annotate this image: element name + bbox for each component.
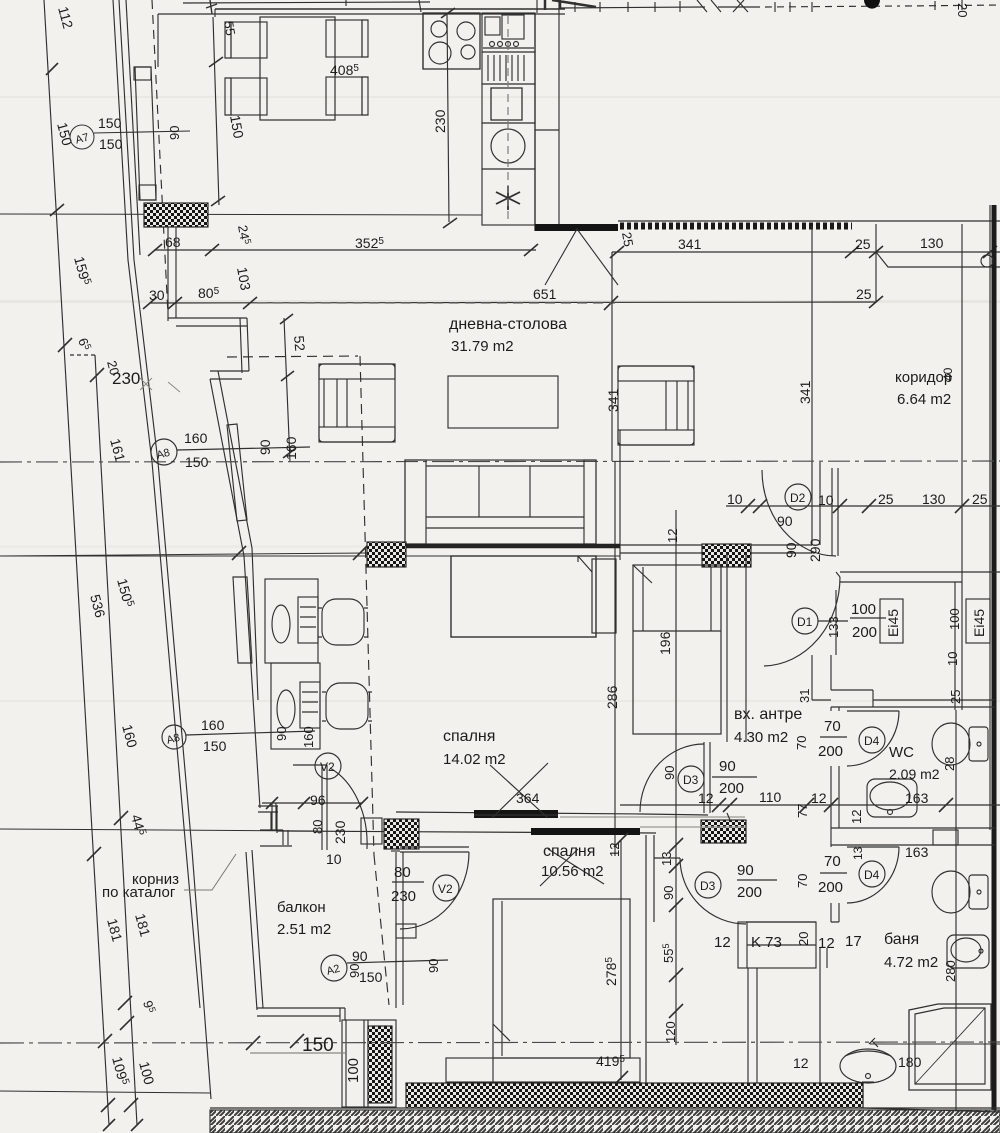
svg-text:4.30 m2: 4.30 m2: [734, 729, 788, 746]
living/bedroom wall y553: [620, 552, 812, 554]
svg-text:341: 341: [605, 388, 621, 412]
svg-text:200: 200: [719, 780, 744, 797]
svg-text:20: 20: [955, 3, 970, 17]
svg-text:90: 90: [662, 766, 677, 780]
label 20 top right: [955, 3, 970, 17]
bedroom south wall upper line: [396, 812, 708, 815]
door D1 arc: [764, 577, 840, 666]
wall stub y765: [293, 764, 326, 766]
balcony bottom wall: [257, 1008, 345, 1016]
svg-text:D3: D3: [700, 879, 716, 893]
wash basin bath right: [947, 935, 989, 968]
door D1 leaf: [836, 572, 840, 577]
counter left edge: [422, 13, 424, 69]
desk unit 2: [271, 663, 320, 749]
toilet wc: [932, 723, 988, 765]
chain2 tick y375: [90, 368, 104, 382]
shower cabin: [869, 1004, 1000, 1090]
svg-text:160: 160: [184, 430, 208, 446]
A8-2 leader: [186, 731, 315, 735]
corridor axis x812: [811, 226, 813, 462]
svg-text:230: 230: [112, 369, 140, 388]
bedroom south wall lower line: [277, 831, 656, 833]
svg-text:6.64 m2: 6.64 m2: [897, 391, 951, 408]
window end block top: [134, 67, 151, 80]
door D2 arc: [762, 470, 836, 556]
svg-text:30: 30: [149, 287, 165, 303]
svg-text:12: 12: [698, 790, 714, 806]
left horizontal line y1091: [0, 1091, 211, 1093]
svg-text:10: 10: [818, 492, 834, 508]
hatch wall H1: [144, 203, 208, 227]
coffee table: [448, 376, 558, 428]
bedroom west wall slant: [244, 548, 260, 808]
dim row y506: [726, 505, 1000, 507]
svg-text:150: 150: [99, 136, 123, 152]
svg-text:90: 90: [167, 126, 182, 140]
tick: [211, 196, 225, 206]
chain1 tick y1041: [98, 1034, 112, 1048]
chain2 tick y1022: [120, 1016, 134, 1030]
tick: [741, 499, 755, 513]
tick: [669, 838, 683, 852]
tick: [614, 1071, 628, 1085]
axis circle A7: [70, 125, 94, 149]
bath west wall: [646, 835, 654, 1086]
chain2 tick y1000: [118, 996, 132, 1010]
window end block bottom: [139, 185, 156, 200]
wall step y130: [535, 129, 559, 131]
door V2 balcony arc: [400, 852, 469, 929]
svg-text:10: 10: [326, 851, 342, 867]
korniz leader polyline: [184, 854, 236, 890]
svg-text:55: 55: [221, 20, 238, 37]
svg-text:D1: D1: [797, 615, 813, 629]
svg-text:20: 20: [796, 932, 811, 946]
bath bottom walls: [862, 1083, 864, 1108]
tick on axis2: [290, 1034, 304, 1048]
window strip mid (tilted): [227, 424, 247, 521]
door D2 leaf: [832, 468, 838, 556]
svg-text:2.51 m2: 2.51 m2: [277, 921, 331, 938]
living west wall step verticals: [168, 227, 176, 321]
svg-text:10.56 m2: 10.56 m2: [541, 863, 604, 880]
step horizontal double: [168, 318, 247, 326]
dining chair top-left: [225, 22, 267, 58]
svg-text:D4: D4: [864, 734, 880, 748]
tick: [669, 898, 683, 912]
svg-text:28: 28: [942, 757, 957, 771]
checker in wall block: [368, 1026, 392, 1103]
right edge wall dark: [992, 205, 997, 1120]
tick: [298, 797, 310, 809]
hatch H2: [367, 542, 406, 567]
svg-text:дневна-столова: дневна-столова: [449, 316, 567, 333]
exterior slanted facade line f2: [119, 0, 211, 1099]
dashed line balcony: [374, 855, 389, 1005]
entrance north wall: [840, 572, 1000, 582]
svg-text:WC: WC: [889, 744, 914, 761]
dining chair top-right: [326, 20, 368, 57]
diagonal hatch strip bottom: [210, 1110, 1000, 1133]
window bar black 2: [531, 828, 640, 835]
tick: [824, 798, 838, 812]
fraction 90/200 D3b: [737, 879, 777, 881]
dining west wall top: [158, 9, 215, 67]
svg-text:150: 150: [359, 969, 383, 985]
svg-text:12: 12: [607, 843, 622, 857]
svg-text:2.09 m2: 2.09 m2: [889, 766, 940, 782]
svg-text:110: 110: [759, 789, 782, 805]
wc/bath divider wall: [831, 828, 995, 845]
svg-text:90: 90: [274, 727, 289, 741]
left dimension chain 2 (inner): [95, 355, 137, 1125]
Ei45 box 1: [880, 599, 903, 643]
top wall line outer: [215, 8, 565, 10]
tick: [148, 244, 162, 256]
exterior slanted facade line f1: [113, 0, 200, 1008]
hatch H4: [701, 820, 746, 843]
door jamb block: [396, 924, 416, 938]
dim row y302: [150, 302, 876, 303]
svg-text:90: 90: [661, 886, 676, 900]
dim vertical x288 (52): [284, 318, 290, 462]
door D3 antre leaf: [704, 742, 710, 813]
svg-text:180: 180: [898, 1054, 922, 1070]
D3 circle a: [678, 766, 704, 792]
tick: [168, 297, 182, 309]
svg-text:290: 290: [807, 538, 823, 562]
entrance east wall: [955, 582, 962, 710]
wc duct wall: [955, 710, 957, 1110]
tick: [209, 57, 223, 67]
svg-text:120: 120: [663, 1021, 678, 1043]
wash basin bath bottom: [840, 1049, 896, 1083]
svg-text:12: 12: [811, 790, 827, 806]
dashed living span y302: [257, 302, 615, 304]
tick on wall left: [232, 546, 246, 560]
chain1 tick y1105: [101, 1098, 115, 1112]
door V2 bedroom leaf: [322, 765, 327, 850]
tick: [712, 798, 726, 812]
tick: [669, 859, 683, 873]
svg-text:25: 25: [855, 236, 871, 252]
tick: [939, 798, 953, 812]
svg-text:96: 96: [310, 792, 326, 808]
tick x360: [353, 546, 367, 560]
svg-text:150: 150: [185, 454, 209, 470]
svg-text:230: 230: [391, 888, 416, 905]
svg-text:Ei45: Ei45: [885, 609, 901, 637]
svg-text:160: 160: [301, 726, 316, 748]
svg-text:90: 90: [426, 959, 441, 973]
left horizontal line y829: [0, 829, 318, 831]
svg-text:70: 70: [824, 853, 841, 870]
toilet bath: [932, 871, 988, 913]
svg-text:10: 10: [945, 652, 960, 666]
bed2 vertical: [633, 565, 721, 734]
corridor west wall: [812, 462, 820, 545]
svg-text:68: 68: [165, 234, 181, 250]
chain2 end arrow: [131, 1119, 143, 1131]
gray wall lines: [560, 817, 745, 827]
washing machine: [482, 123, 535, 169]
dining chair bottom-right: [326, 77, 368, 115]
thin line under 364: [474, 814, 558, 816]
svg-text:25: 25: [878, 491, 894, 507]
door D3 bath leaf: [654, 857, 680, 859]
Ei45 box 2: [966, 599, 990, 643]
left dimension chain 1 (outer): [44, 0, 109, 1125]
fraction 70/200 wc: [820, 736, 847, 738]
bed3 footboard: [446, 1058, 640, 1082]
dim vert x676: [675, 510, 677, 1045]
bath west wall lower: [748, 968, 757, 1086]
dishwasher hatched: [482, 52, 535, 84]
tick: [614, 833, 628, 847]
svg-text:25: 25: [972, 491, 988, 507]
antre south stub: [812, 699, 831, 701]
svg-text:150: 150: [203, 738, 227, 754]
living/bedroom wall y545 thin: [620, 544, 812, 546]
leader X 364: [490, 763, 548, 818]
fraction 100/200: [850, 617, 886, 619]
svg-text:12: 12: [849, 810, 864, 824]
tick: [669, 968, 683, 982]
door D3 antre arc: [640, 744, 704, 812]
svg-text:D2: D2: [790, 491, 806, 505]
tick: [143, 297, 157, 309]
dim row y252 right: [612, 251, 1000, 253]
svg-text:V2: V2: [320, 760, 335, 774]
svg-text:12: 12: [714, 934, 731, 951]
tick: [610, 246, 624, 258]
svg-text:100: 100: [947, 608, 962, 630]
top survey strip: [183, 0, 1000, 14]
tick: [845, 246, 859, 258]
window box left of hatch: [361, 818, 382, 844]
svg-text:90: 90: [719, 758, 736, 775]
tick: [869, 246, 883, 258]
living/bedroom wall y545 thick: [368, 544, 620, 549]
tick: [833, 499, 847, 513]
wall stub x825: [820, 948, 827, 1086]
dash-dot axis y461 full width: [0, 461, 1000, 462]
A2 axis circle: [321, 955, 347, 981]
svg-text:163: 163: [905, 790, 929, 806]
dim line 96: [262, 802, 362, 804]
window strip west bedroom: [233, 577, 252, 663]
checker bottom strip: [406, 1083, 863, 1108]
svg-text:40: 40: [941, 367, 955, 381]
svg-text:D4: D4: [864, 868, 880, 882]
kitchen centerline dashed: [507, 16, 509, 224]
svg-text:160: 160: [201, 717, 225, 733]
dim vert x836 (133): [835, 590, 837, 655]
svg-text:100: 100: [851, 601, 876, 618]
balcony step down: [340, 1008, 345, 1022]
dining chair bottom-left: [225, 78, 267, 115]
door D4 bath leaf: [847, 846, 899, 848]
svg-text:90: 90: [257, 439, 273, 455]
svg-text:31.79 m2: 31.79 m2: [451, 338, 514, 355]
A2 leader: [347, 960, 448, 963]
dim vert x615 lower: [614, 560, 616, 856]
svg-text:V2: V2: [438, 882, 453, 896]
dim row y250: [154, 249, 536, 251]
tick top: [441, 8, 455, 18]
A8 leader: [177, 447, 310, 450]
wash basin wc: [867, 779, 917, 817]
entrance/wc step walls: [812, 655, 995, 707]
svg-text:70: 70: [824, 718, 841, 735]
kitchen right wall: [534, 13, 536, 231]
D1 circle: [792, 608, 818, 634]
stool 2: [322, 683, 372, 729]
door D3 bath arc: [680, 858, 746, 924]
dim line vertical x215: [213, 17, 219, 205]
svg-text:286: 286: [604, 685, 620, 709]
svg-text:341: 341: [678, 236, 702, 252]
bed1 horizontal: [451, 556, 616, 637]
A7 leader line: [94, 131, 190, 133]
thick wall bar below kitchen: [535, 224, 618, 231]
wall edge line left: [0, 555, 620, 557]
svg-text:25: 25: [948, 690, 963, 704]
window bar black 1: [474, 810, 558, 818]
corridor top wall thin edge: [618, 220, 1000, 222]
svg-text:200: 200: [852, 624, 877, 641]
dining table: [260, 17, 335, 120]
balcony east wall: [396, 852, 403, 1008]
dim vertical x612 (341): [612, 252, 620, 560]
svg-text:364: 364: [516, 790, 540, 806]
corridor top dotted wall: [620, 223, 852, 230]
V2 circle b: [433, 875, 459, 901]
svg-text:по каталог: по каталог: [102, 884, 176, 901]
tick: [983, 246, 997, 258]
svg-text:70: 70: [795, 874, 810, 888]
left horizontal line y214: [0, 214, 482, 215]
svg-text:90: 90: [737, 862, 754, 879]
svg-text:150: 150: [98, 115, 122, 131]
door D4 bath arc: [847, 847, 899, 903]
leader X spalnya2: [540, 849, 604, 886]
svg-text:130: 130: [922, 491, 946, 507]
svg-text:230: 230: [332, 820, 348, 844]
fraction 80/230: [392, 881, 424, 883]
svg-text:12: 12: [665, 529, 680, 543]
exterior slanted facade line f3: [126, 0, 140, 255]
tick: [205, 244, 219, 256]
svg-text:спалня: спалня: [543, 843, 595, 860]
step vertical double: [240, 318, 249, 373]
svg-text:200: 200: [737, 884, 762, 901]
chain1 tick y69: [46, 63, 58, 75]
svg-text:200: 200: [818, 743, 843, 760]
armchair left: [319, 364, 395, 442]
fraction 70/200 bath: [820, 872, 847, 874]
tick: [862, 499, 876, 513]
dashed line vert bedroom: [360, 356, 374, 855]
oven: [482, 84, 535, 123]
top wall line inner: [158, 13, 565, 15]
stool 1: [318, 599, 368, 645]
spalnya2 north wall: [391, 850, 400, 852]
chain1 tick y855: [87, 847, 101, 861]
svg-text:спалня: спалня: [443, 728, 495, 745]
tick: [281, 371, 294, 381]
svg-text:80: 80: [310, 820, 325, 834]
small circle right: [981, 255, 993, 267]
bed3 spalnya2: [493, 899, 630, 1058]
svg-text:13: 13: [659, 852, 674, 866]
tick: [356, 797, 368, 809]
svg-text:балкон: балкон: [277, 899, 326, 916]
svg-text:200: 200: [818, 879, 843, 896]
living west wall slant double: [210, 371, 252, 556]
D2 circle: [785, 484, 811, 510]
V2 circle a: [315, 753, 341, 779]
tick: [955, 499, 969, 513]
tick: [266, 797, 278, 809]
line below checker right: [863, 1108, 1000, 1112]
tick: [753, 499, 767, 513]
svg-text:651: 651: [533, 286, 557, 302]
gray x marks: [140, 378, 180, 392]
svg-text:150: 150: [302, 1035, 334, 1056]
tick: [524, 244, 538, 256]
door D4 wc leaf: [847, 710, 899, 712]
arrow bottom: [443, 218, 457, 228]
stove: [423, 13, 480, 69]
tick 651 right: [604, 296, 618, 310]
D1 label leader: [818, 620, 848, 622]
dashed boundary line top: [152, 0, 168, 315]
svg-text:17: 17: [845, 933, 862, 950]
D4 circle wc: [859, 727, 885, 753]
dashed line horiz y356: [227, 356, 358, 357]
svg-text:52: 52: [291, 335, 308, 352]
wc west wall upper: [831, 707, 839, 711]
door V2 balcony leaf: [400, 847, 469, 852]
A8 axis circle: [151, 439, 177, 465]
leader split: [876, 252, 1000, 267]
svg-text:баня: баня: [884, 931, 919, 948]
svg-text:80: 80: [394, 864, 411, 881]
tick: [723, 798, 737, 812]
tick: [283, 448, 296, 458]
svg-text:77: 77: [795, 804, 810, 818]
bath north wall: [746, 921, 816, 923]
chain2 tick y1105: [124, 1098, 138, 1112]
desk unit 1: [265, 579, 318, 663]
armchair right: [618, 366, 694, 445]
A8 axis circle 2: [162, 725, 186, 749]
wall step left of balcony: [258, 806, 278, 833]
step horizontal 2: [210, 371, 249, 379]
sink unit: [482, 13, 535, 52]
svg-text:25: 25: [856, 286, 872, 302]
window strip upper (tilted): [135, 67, 156, 200]
svg-text:133: 133: [826, 616, 841, 638]
svg-text:70: 70: [794, 736, 809, 750]
wall block below balcony: [342, 1020, 396, 1107]
antre west wall: [727, 553, 746, 820]
door D4 wc arc: [847, 711, 899, 766]
chain1 end arrow: [103, 1119, 115, 1131]
bath west wall top stub: [831, 903, 839, 922]
